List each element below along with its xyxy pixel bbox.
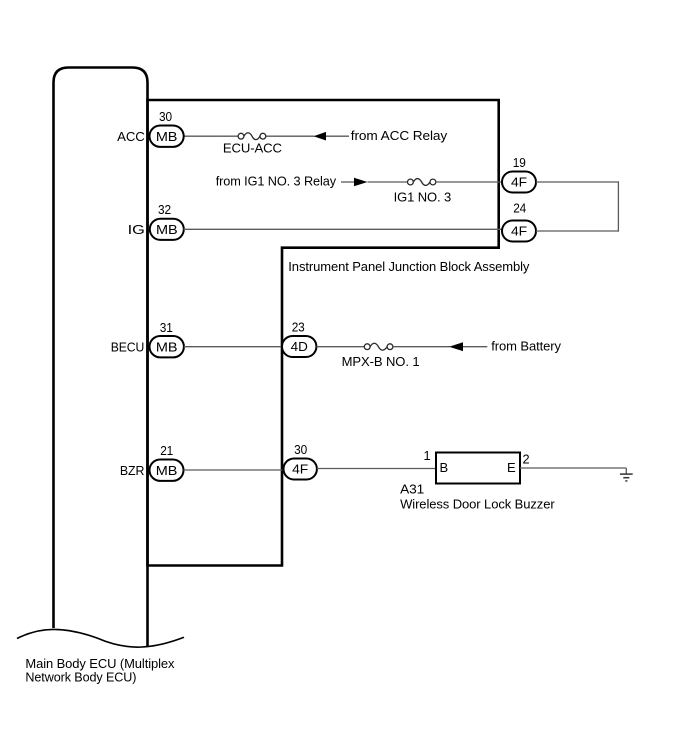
Main Body ECU outline xyxy=(54,68,148,647)
svg-text:from IG1 NO. 3 Relay: from IG1 NO. 3 Relay xyxy=(216,174,337,189)
svg-text:BZR: BZR xyxy=(120,463,145,478)
fuse ECU-ACC xyxy=(238,133,266,140)
wire 4F19 to right loop xyxy=(536,181,619,183)
svg-text:31: 31 xyxy=(160,320,173,335)
connector 4D (23) xyxy=(282,336,316,357)
wire MB(21) to 4F(30) xyxy=(184,469,285,471)
Instrument Panel Junction Block border xyxy=(148,100,499,566)
svg-text:E: E xyxy=(507,460,516,475)
svg-text:Instrument Panel Junction Bloc: Instrument Panel Junction Block Assembly xyxy=(288,259,530,274)
wire arrow to fuse xyxy=(368,181,408,183)
svg-text:MB: MB xyxy=(156,222,178,237)
svg-text:MB: MB xyxy=(156,339,178,354)
svg-text:4F: 4F xyxy=(292,462,308,477)
svg-text:from ACC Relay: from ACC Relay xyxy=(351,128,448,143)
svg-text:from Battery: from Battery xyxy=(491,338,561,353)
connector MB (ACC) xyxy=(150,126,184,147)
arrow to fuse (points right) xyxy=(341,181,354,183)
wire fuse to arrow xyxy=(393,346,450,348)
connector MB (IG) xyxy=(150,219,184,240)
svg-text:A31: A31 xyxy=(400,482,424,497)
arrow from ACC Relay (points left) xyxy=(314,132,327,141)
svg-text:30: 30 xyxy=(159,109,172,124)
svg-text:23: 23 xyxy=(292,320,305,335)
wire 4D to fuse xyxy=(316,346,364,348)
svg-text:4F: 4F xyxy=(511,224,527,239)
svg-text:24: 24 xyxy=(513,201,526,216)
wire buzzer to ground xyxy=(520,467,626,469)
svg-text:1: 1 xyxy=(424,448,431,463)
svg-text:4F: 4F xyxy=(511,175,527,190)
svg-text:4D: 4D xyxy=(291,339,308,354)
right loop vertical wire xyxy=(617,181,619,231)
connector 4F (24) xyxy=(502,221,536,242)
connector MB (BZR) xyxy=(150,460,184,481)
svg-text:2: 2 xyxy=(523,451,530,466)
wire 4F24 to right loop xyxy=(536,230,619,232)
wire MB(31) to 4D xyxy=(184,346,283,348)
wire fuse to arrow xyxy=(266,135,315,137)
svg-text:B: B xyxy=(440,460,449,475)
svg-text:MB: MB xyxy=(156,129,178,144)
svg-text:IG1 NO. 3: IG1 NO. 3 xyxy=(394,189,452,204)
svg-text:30: 30 xyxy=(294,442,307,457)
connector 4F (30) xyxy=(284,459,317,480)
connector MB (BECU) xyxy=(150,336,184,357)
svg-text:19: 19 xyxy=(513,155,526,170)
svg-text:Network Body ECU): Network Body ECU) xyxy=(25,669,136,684)
wire fuse to 4F pin 19 xyxy=(436,181,503,183)
fuse MPX-B NO. 1 xyxy=(364,343,393,350)
fuse IG1 NO. 3 xyxy=(408,179,436,186)
svg-text:IG: IG xyxy=(128,222,145,237)
svg-text:ECU-ACC: ECU-ACC xyxy=(223,141,282,156)
ECU break wave xyxy=(17,629,184,647)
svg-text:MB: MB xyxy=(156,463,178,478)
wire MB to fuse xyxy=(183,135,239,137)
svg-text:Wireless Door Lock Buzzer: Wireless Door Lock Buzzer xyxy=(400,496,555,511)
arrow from Battery (points left) xyxy=(449,342,463,351)
connector 4F (19) xyxy=(502,172,536,193)
wire 4F(30) to buzzer xyxy=(317,468,437,470)
wire MB(32) to 4F(24) xyxy=(184,228,504,230)
buzzer A31 box xyxy=(436,453,520,484)
svg-text:ACC: ACC xyxy=(117,129,145,144)
svg-text:21: 21 xyxy=(160,443,173,458)
svg-text:MPX-B NO. 1: MPX-B NO. 1 xyxy=(342,354,420,369)
ground xyxy=(620,468,633,481)
svg-text:32: 32 xyxy=(158,202,171,217)
svg-text:BECU: BECU xyxy=(111,339,145,354)
